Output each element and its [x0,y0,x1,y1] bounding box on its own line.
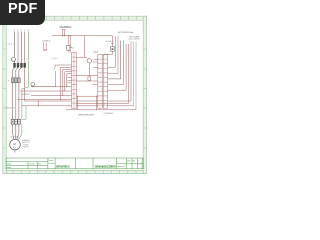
pushbutton S1 [111,36,115,52]
cable wire 4 to right [108,41,124,85]
svg-text:469: 469 [127,161,130,163]
drawing frame right band [143,16,146,173]
wire S1 to X2 [103,51,112,54]
drawing frame bottom band [3,170,147,173]
svg-text:W1 U1 V1: W1 U1 V1 [6,107,16,109]
svg-text:CY-M 4x1.5: CY-M 4x1.5 [104,113,115,115]
link X1 to X2 row b [77,95,98,97]
X2 short left stubs [92,60,98,85]
motor leads [13,124,19,139]
svg-text:INTERMEDIATE RELAY: INTERMEDIATE RELAY [60,26,73,29]
svg-text:-F: -F [7,81,10,83]
relay K2 element [88,77,91,80]
svg-text:Drawn: Drawn [49,163,55,165]
link X1 to X2 row a [77,75,98,77]
svg-text:=: = [117,161,119,163]
bracket junction dots [60,86,67,100]
relay K1 coil between strips [77,58,92,76]
svg-text:+ Q-1 +: + Q-1 + [6,44,15,46]
drawing frame top band [3,16,147,20]
PDF badge overlay [0,0,45,25]
svg-text:xx.PE/N.(: xx.PE/N.( [21,94,30,96]
PE drop to motor green [22,87,29,120]
X1 lower rows from bus [67,105,72,107]
breaker Q1 aux circle [12,58,16,62]
svg-text:wwWH7S: wwWH7S [105,41,114,43]
svg-text:-K4x: -K4x [52,58,58,60]
terminal strip X1 [72,53,77,109]
PE terminal circle [31,83,35,87]
riser pair to label [63,29,65,35]
L3 rail [21,32,23,64]
overload relay F1 [11,78,20,83]
L2 rail [17,32,19,64]
svg-text:Bl.: Bl. [133,161,136,163]
bridge verticals to bus [78,96,97,110]
N wire right turn [25,100,131,102]
coil riser from bus [83,36,85,58]
title block [6,158,143,169]
svg-text:DOWNHILL ELECT.DIAGR: DOWNHILL ELECT.DIAGR [95,165,116,169]
L3 rail below Q1 [19,68,22,78]
svg-text:SPEA DATE HU: SPEA DATE HU [56,165,70,169]
svg-text:ex-SYNC lin: ex-SYNC lin [42,40,51,42]
PE branch to bus green [22,106,26,120]
L1 rail [14,32,16,58]
fuse F4 [67,45,70,50]
motor feed W wire [18,83,20,120]
N rail below Q1 [24,68,26,101]
svg-text:ACTION MUST-n line: ACTION MUST-n line [118,31,134,34]
wire to relay box row2 [20,72,71,91]
L2 rail below Q1 [16,68,18,78]
svg-text:Issue: Issue [49,160,55,162]
terminal strip X2 column A [98,55,102,109]
return wire B3 PE green [133,42,135,106]
svg-text:+A1Ø: +A1Ø [93,51,98,54]
N to PE link vertical [37,101,39,106]
cable wire 1 to right [108,37,116,68]
svg-text:+4: +4 [72,48,75,50]
spare wire stub 2 [45,42,47,49]
return wire B4 green [135,42,137,110]
svg-text:7: 7 [24,30,26,32]
terminal strip X2 column B [103,55,107,109]
spare wire stub 1 [43,42,45,49]
rail terminal labels L1 L2 L3 N PE [14,30,30,32]
cable wire 3 to right [108,41,121,79]
svg-text:appr.ped: appr.ped [117,165,124,168]
title block texts [7,160,139,169]
wire nested bracket inner [31,74,72,87]
wire to relay box row1 [32,86,56,88]
PE/N bus under strips [66,109,136,111]
return wire B1 [77,44,129,104]
drawing frame left band [3,16,6,173]
svg-text:U1 V1 W1: U1 V1 W1 [10,137,20,139]
PE return wire [22,105,134,107]
cable wire 2 to right [108,37,118,74]
motor M1 [10,139,21,150]
X1 left row stubs [68,78,72,83]
label motor rating [22,140,30,149]
motor feed U wire [12,83,14,120]
motor PE lead green [19,124,22,139]
supply pair down to strip X1 [68,36,70,53]
control bus wire [52,35,113,37]
svg-text:3~: 3~ [13,145,16,149]
PE rail green [28,32,30,88]
motor terminal block [11,119,20,124]
svg-text:1: 1 [138,161,139,163]
contact K4 flag [54,65,72,87]
svg-text:SPEED SWITCH DEV: SPEED SWITCH DEV [78,115,95,117]
wire to relay box row3 [31,69,72,95]
cable wire 5 to right [108,44,126,90]
return wire B2 from N line [130,41,132,101]
svg-text:380V: 380V [23,147,29,149]
breaker Q1 contact block [13,63,26,68]
svg-text:Date: Date [7,162,12,165]
motor ground stub [14,150,16,153]
L1 rail below Q1 [13,68,15,78]
svg-text:wire nr 4555: wire nr 4555 [129,38,141,41]
wire to relay box row4 [17,67,71,99]
N rail [24,32,26,64]
motor feed V wire [15,83,17,120]
link X1 to X2 row c [77,80,98,82]
svg-text:5.4.99: 5.4.99 [29,163,35,165]
